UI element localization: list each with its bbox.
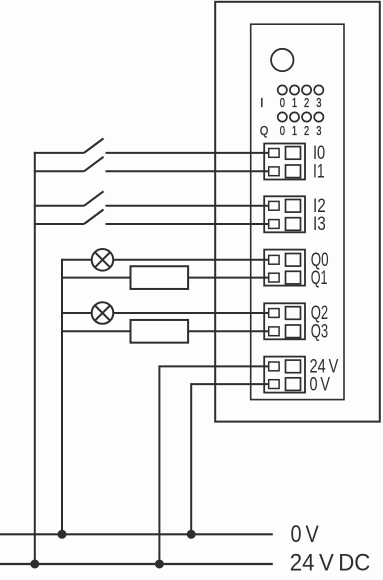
svg-text:1: 1 [292, 96, 297, 110]
svg-text:0: 0 [280, 96, 285, 110]
svg-text:I1: I1 [313, 162, 325, 183]
svg-text:I: I [260, 96, 263, 110]
svg-text:0: 0 [280, 124, 285, 138]
svg-text:I3: I3 [313, 214, 326, 235]
svg-text:3: 3 [316, 124, 321, 138]
svg-text:0 V: 0 V [310, 374, 331, 395]
svg-text:2: 2 [304, 96, 309, 110]
svg-text:Q: Q [260, 124, 269, 138]
svg-text:3: 3 [316, 96, 321, 110]
svg-text:2: 2 [304, 124, 309, 138]
svg-text:1: 1 [292, 124, 297, 138]
svg-text:24 V DC: 24 V DC [290, 549, 371, 576]
svg-text:Q3: Q3 [311, 322, 328, 343]
svg-text:Q1: Q1 [311, 268, 328, 289]
svg-text:0 V: 0 V [291, 521, 320, 548]
